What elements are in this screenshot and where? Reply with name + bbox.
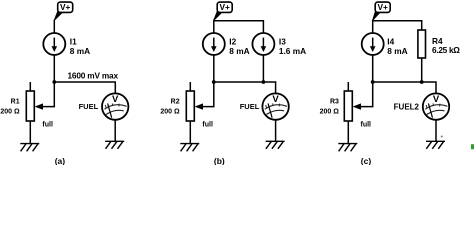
wire V+ tee to I4 and R4 xyxy=(373,20,422,30)
green marker at right edge xyxy=(471,144,474,149)
svg-text:200 Ω: 200 Ω xyxy=(160,108,180,115)
svg-text:V+: V+ xyxy=(378,2,389,12)
svg-text:8 mA: 8 mA xyxy=(70,46,90,56)
wire node to wiper (b) xyxy=(203,82,214,107)
net flag V+ (b) xyxy=(214,2,232,20)
wire V+ tee to I2 and I3 xyxy=(214,20,264,33)
wire voltmeter (b) to ground xyxy=(275,120,277,142)
svg-text:FUEL2: FUEL2 xyxy=(394,102,420,111)
current source I1 xyxy=(43,33,65,55)
wiper arrow R2 xyxy=(195,103,203,109)
svg-text:V+: V+ xyxy=(220,2,231,12)
svg-text:V: V xyxy=(112,94,119,105)
svg-text:V+: V+ xyxy=(60,2,71,12)
wire bus to voltmeter (b) xyxy=(214,82,276,94)
svg-text:I2: I2 xyxy=(229,36,236,46)
net flag V+ (a) xyxy=(54,2,72,20)
svg-text:R2: R2 xyxy=(171,98,180,105)
junction node I4-bus xyxy=(371,80,375,84)
svg-text:I4: I4 xyxy=(387,36,394,46)
ground under R2 xyxy=(180,144,199,152)
current source I2 xyxy=(203,33,225,55)
svg-text:(c): (c) xyxy=(361,156,372,165)
wire I1 to node xyxy=(53,55,55,82)
svg-text:full: full xyxy=(202,121,213,128)
label R1 200 ohm xyxy=(0,98,20,115)
wire down to I2 xyxy=(213,21,215,33)
wire node to wiper xyxy=(43,82,55,107)
svg-text:V: V xyxy=(433,94,440,105)
svg-text:8 mA: 8 mA xyxy=(387,46,407,56)
label R3 200 ohm xyxy=(320,98,340,115)
label R4 6.25 kohm xyxy=(432,36,460,55)
ground under voltmeter (c) xyxy=(426,141,445,149)
svg-text:1.6 mA: 1.6 mA xyxy=(279,46,306,56)
ground under R1 xyxy=(20,144,39,152)
svg-text:6.25 kΩ: 6.25 kΩ xyxy=(432,45,460,55)
voltmeter FUEL (b) xyxy=(262,93,288,119)
potentiometer R3 xyxy=(344,82,352,144)
label I3 1.6 mA xyxy=(279,36,306,56)
svg-text:200 Ω: 200 Ω xyxy=(320,108,340,115)
ground under voltmeter (a) xyxy=(105,141,124,149)
svg-text:full: full xyxy=(361,121,372,128)
wire node to wiper (c) xyxy=(361,82,373,107)
svg-text:I3: I3 xyxy=(279,36,286,46)
svg-text:R1: R1 xyxy=(11,98,20,105)
potentiometer R2 xyxy=(186,82,194,144)
junction node I3-bus xyxy=(262,80,266,84)
label I4 8 mA xyxy=(387,36,407,56)
svg-text:R3: R3 xyxy=(330,98,339,105)
ground under R3 xyxy=(338,144,357,152)
label R2 200 ohm xyxy=(160,98,180,115)
wire I2 to bus xyxy=(213,55,215,82)
svg-text:(a): (a) xyxy=(55,156,66,165)
svg-text:1600 mV max: 1600 mV max xyxy=(68,70,119,80)
label I2 8 mA xyxy=(229,36,249,56)
wiper arrow R3 xyxy=(353,103,361,109)
junction node I2-bus xyxy=(212,80,216,84)
wiper arrow R1 xyxy=(35,103,43,109)
resistor R4 xyxy=(418,30,426,82)
svg-text:I1: I1 xyxy=(70,36,77,46)
svg-text:V: V xyxy=(272,94,279,105)
wire node to voltmeter xyxy=(54,82,115,94)
svg-text:FUEL: FUEL xyxy=(79,102,99,111)
voltmeter FUEL (a) xyxy=(102,93,128,119)
wire bus to voltmeter (c) xyxy=(373,82,436,94)
svg-text:200 Ω: 200 Ω xyxy=(0,108,20,115)
ground under voltmeter (b) xyxy=(266,141,285,149)
net flag V+ (c) xyxy=(373,2,391,20)
svg-text:(b): (b) xyxy=(214,156,225,165)
current source I4 xyxy=(362,33,384,55)
wire down to I4 xyxy=(372,21,374,33)
junction node R4-bus xyxy=(420,80,424,84)
current source I3 xyxy=(252,33,274,55)
svg-text:FUEL: FUEL xyxy=(240,102,260,111)
wire I4 to bus xyxy=(372,55,374,82)
potentiometer R1 xyxy=(26,82,34,144)
wire I3 to bus xyxy=(262,55,264,82)
label I1 8 mA xyxy=(70,36,90,56)
junction node A xyxy=(52,80,56,84)
svg-text:8 mA: 8 mA xyxy=(229,46,249,56)
voltmeter FUEL2 xyxy=(423,93,449,119)
stray dot artifact xyxy=(441,136,443,138)
wire voltmeter (a) to ground xyxy=(114,120,116,142)
wire voltmeter (c) to ground xyxy=(435,120,437,142)
svg-text:full: full xyxy=(42,121,53,128)
wire V+ to I1 xyxy=(53,20,55,33)
